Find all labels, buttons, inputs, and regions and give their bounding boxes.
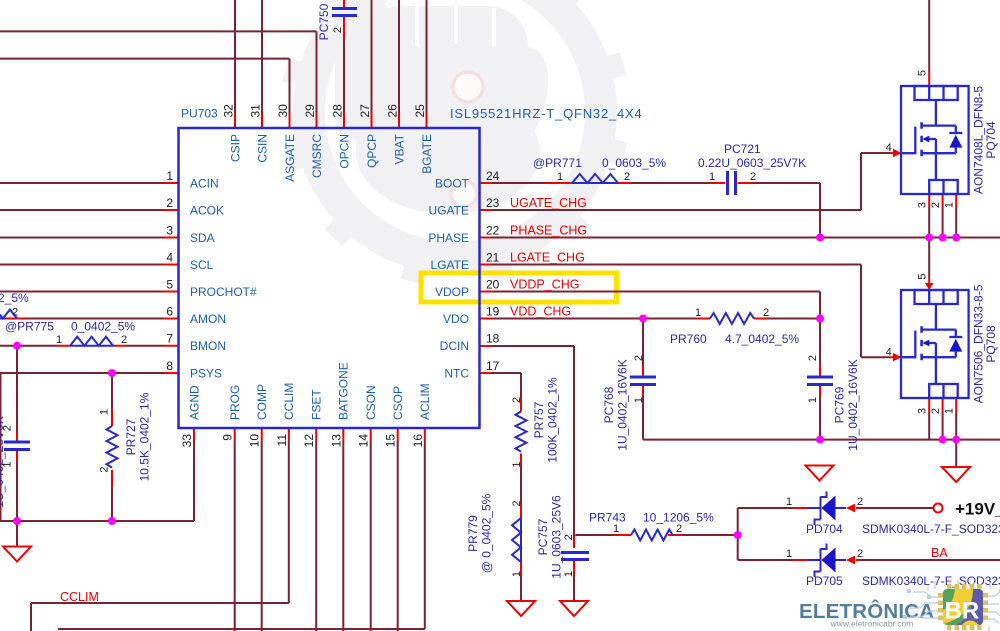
svg-text:2: 2 (930, 408, 942, 414)
svg-text:2: 2 (121, 334, 127, 346)
svg-text:15: 15 (384, 434, 398, 448)
svg-text:1: 1 (56, 334, 62, 346)
svg-text:CMSRC: CMSRC (310, 134, 324, 178)
svg-text:22: 22 (486, 224, 500, 238)
svg-text:SDA: SDA (190, 231, 215, 245)
svg-text:VDOP: VDOP (435, 285, 469, 299)
svg-text:PR779@ 0_0402_5%: PR779@ 0_0402_5% (466, 493, 494, 573)
svg-text:BOOT: BOOT (435, 176, 470, 190)
svg-text:2: 2 (763, 307, 769, 319)
svg-text:@PR771: @PR771 (533, 156, 582, 170)
svg-text:14: 14 (357, 434, 371, 448)
svg-text:CSIP: CSIP (228, 134, 242, 162)
svg-text:BMON: BMON (190, 339, 226, 353)
svg-text:COMP: COMP (255, 384, 269, 420)
svg-text:PROG: PROG (228, 385, 242, 420)
svg-text:32: 32 (222, 104, 236, 118)
svg-text:PR757100K_0402_1%: PR757100K_0402_1% (532, 377, 560, 463)
svg-text:BGATE: BGATE (420, 134, 434, 174)
svg-text:+19V_S: +19V_S (955, 500, 1000, 519)
svg-text:2: 2 (332, 27, 344, 33)
svg-text:PC721: PC721 (724, 142, 761, 156)
svg-text:ACLIM: ACLIM (418, 383, 432, 420)
svg-text:8: 8 (166, 359, 173, 373)
svg-text:UGATE: UGATE (429, 203, 469, 217)
svg-text:0.22U_0603_25V7K: 0.22U_0603_25V7K (698, 156, 806, 170)
svg-text:1: 1 (786, 496, 792, 508)
svg-text:1: 1 (557, 171, 563, 183)
svg-text:33: 33 (180, 434, 194, 448)
svg-text:31: 31 (249, 104, 263, 118)
svg-text:PD705: PD705 (806, 574, 843, 588)
svg-text:VDDP_CHG: VDDP_CHG (510, 278, 579, 292)
svg-text:10: 10 (248, 434, 262, 448)
svg-text:1: 1 (613, 523, 619, 535)
svg-text:BATGONE: BATGONE (337, 362, 351, 420)
svg-text:2: 2 (857, 548, 863, 560)
svg-text:2: 2 (676, 523, 682, 535)
svg-text:AGND: AGND (187, 385, 201, 420)
svg-text:1: 1 (709, 171, 715, 183)
svg-text:PR760: PR760 (670, 332, 707, 346)
svg-text:2: 2 (807, 355, 819, 361)
svg-text:VDD_CHG: VDD_CHG (510, 305, 571, 319)
svg-text:2: 2 (624, 171, 630, 183)
svg-text:VBAT: VBAT (392, 133, 406, 164)
svg-text:SCL: SCL (190, 258, 214, 272)
svg-text:5: 5 (917, 70, 929, 76)
svg-text:1: 1 (695, 307, 701, 319)
svg-text:OPCN: OPCN (337, 134, 351, 169)
svg-text:4: 4 (886, 142, 892, 154)
svg-text:28: 28 (331, 104, 345, 118)
svg-text:2: 2 (511, 500, 523, 506)
svg-text:1: 1 (166, 169, 173, 183)
svg-text:PR743: PR743 (589, 511, 626, 525)
svg-text:20: 20 (486, 278, 500, 292)
svg-text:2: 2 (511, 397, 523, 403)
svg-text:1: 1 (511, 571, 523, 577)
svg-text:ASGATE: ASGATE (283, 134, 297, 182)
svg-text:1: 1 (944, 408, 956, 414)
svg-text:FSET: FSET (310, 389, 324, 420)
svg-text:DCIN: DCIN (440, 339, 469, 353)
svg-text:9: 9 (221, 434, 235, 441)
svg-text:PR72710.5K_0402_1%: PR72710.5K_0402_1% (124, 392, 152, 481)
svg-text:BA: BA (931, 546, 948, 560)
svg-text:24: 24 (486, 169, 500, 183)
svg-text:5: 5 (166, 278, 173, 292)
svg-text:ACOK: ACOK (190, 203, 224, 217)
svg-text:17: 17 (486, 359, 500, 373)
svg-text:www.eletronicabr.com: www.eletronicabr.com (830, 619, 914, 629)
svg-text:PROCHOT#: PROCHOT# (190, 285, 257, 299)
svg-text:2: 2 (563, 534, 575, 540)
svg-text:29: 29 (303, 104, 317, 118)
svg-text:27: 27 (358, 104, 372, 118)
svg-text:CSON: CSON (364, 385, 378, 420)
svg-text:2: 2 (2, 425, 14, 431)
svg-text:11: 11 (275, 434, 289, 447)
svg-text:AMON: AMON (190, 312, 226, 326)
svg-text:PHASE_CHG: PHASE_CHG (510, 224, 587, 238)
svg-text:21: 21 (486, 251, 500, 265)
svg-text:6: 6 (166, 305, 173, 319)
svg-text:2: 2 (750, 171, 756, 183)
svg-text:2: 2 (857, 496, 863, 508)
svg-text:0_0402_5%: 0_0402_5% (71, 320, 135, 334)
svg-text:13: 13 (329, 434, 343, 448)
svg-text:ISL95521HRZ-T_QFN32_4X4: ISL95521HRZ-T_QFN32_4X4 (450, 106, 643, 121)
svg-text:CSOP: CSOP (391, 386, 405, 420)
svg-text:PHASE: PHASE (428, 231, 469, 245)
svg-text:1: 1 (99, 409, 111, 415)
svg-text:1: 1 (563, 571, 575, 577)
svg-text:CCLIM: CCLIM (282, 383, 296, 420)
svg-text:LGATE_CHG: LGATE_CHG (510, 251, 585, 265)
svg-text:PU703: PU703 (181, 107, 218, 121)
svg-text:LGATE: LGATE (431, 258, 469, 272)
svg-text:PSYS: PSYS (190, 366, 222, 380)
svg-text:4: 4 (886, 346, 892, 358)
svg-text:2: 2 (99, 466, 111, 472)
svg-text:1: 1 (2, 461, 14, 467)
svg-text:PC7691U_0402_16V6K: PC7691U_0402_16V6K (833, 359, 861, 450)
svg-text:BR: BR (945, 598, 980, 625)
svg-text:26: 26 (386, 104, 400, 118)
svg-text:2_5%: 2_5% (0, 291, 29, 305)
svg-text:QPCP: QPCP (365, 134, 379, 168)
svg-text:2: 2 (166, 196, 173, 210)
svg-text:2: 2 (930, 202, 942, 208)
svg-text:1: 1 (807, 397, 819, 403)
svg-text:1: 1 (786, 548, 792, 560)
svg-text:18: 18 (486, 332, 500, 346)
svg-text:NTC: NTC (444, 366, 469, 380)
svg-text:ACIN: ACIN (190, 176, 219, 190)
svg-text:3: 3 (917, 408, 929, 414)
svg-text:0_0603_5%: 0_0603_5% (602, 156, 666, 170)
svg-text:1: 1 (633, 397, 645, 403)
svg-text:1: 1 (511, 461, 523, 467)
svg-text:CSIN: CSIN (255, 134, 269, 163)
svg-text:3: 3 (166, 224, 173, 238)
svg-text:16: 16 (411, 434, 425, 448)
svg-text:1: 1 (944, 202, 956, 208)
svg-text:@PR775: @PR775 (5, 320, 54, 334)
svg-text:UGATE_CHG: UGATE_CHG (510, 196, 587, 210)
svg-text:23: 23 (486, 196, 500, 210)
svg-text:19: 19 (486, 305, 500, 319)
svg-text:4: 4 (166, 251, 173, 265)
svg-text:30: 30 (276, 104, 290, 118)
svg-text:AON7408L_DFN8-5PQ704: AON7408L_DFN8-5PQ704 (972, 86, 999, 194)
svg-text:3: 3 (917, 202, 929, 208)
svg-text:7: 7 (166, 332, 173, 346)
svg-text:AON7506_DFN33-8-5PQ708: AON7506_DFN33-8-5PQ708 (972, 284, 999, 403)
svg-text:PC7681U_0402_16V6K: PC7681U_0402_16V6K (602, 359, 630, 450)
svg-text:12: 12 (302, 434, 316, 448)
svg-text:PC750: PC750 (317, 3, 331, 40)
svg-text:25: 25 (413, 104, 427, 118)
svg-text:5: 5 (917, 273, 929, 279)
svg-text:2: 2 (12, 307, 18, 319)
svg-text:CCLIM: CCLIM (60, 590, 99, 604)
svg-text:SDMK0340L-7-F_SOD323: SDMK0340L-7-F_SOD323 (862, 522, 1000, 536)
svg-text:2: 2 (633, 355, 645, 361)
svg-text:PC7571U_0603_25V6: PC7571U_0603_25V6 (536, 495, 564, 579)
svg-text:4.7_0402_5%: 4.7_0402_5% (725, 332, 799, 346)
svg-text:VDO: VDO (443, 312, 469, 326)
svg-text:PD704: PD704 (806, 522, 843, 536)
